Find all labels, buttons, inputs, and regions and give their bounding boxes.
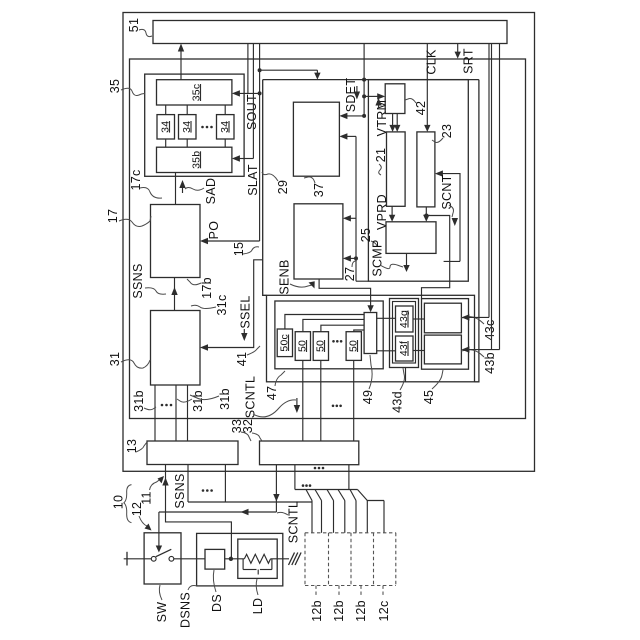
block 42 (385, 84, 405, 114)
arrow SCNT annotation (452, 218, 458, 226)
label 17b (187, 277, 214, 299)
register 35b (157, 147, 232, 172)
wire into 37 lower (339, 133, 356, 139)
wire box13 drop b (224, 465, 226, 503)
box 29 left edge (263, 80, 267, 296)
fan stub 6 (358, 490, 368, 501)
svg-text:17b: 17b (200, 277, 214, 299)
fan bus (295, 489, 358, 491)
wire SCNT feedback (426, 216, 449, 262)
arrow VTRM annotation (375, 98, 381, 108)
wire SCNT bottom link (444, 260, 460, 262)
svg-text:SENB: SENB (278, 259, 292, 294)
label 43c (461, 317, 497, 341)
wire SSEL (200, 260, 263, 351)
wire box13 drop a (187, 465, 189, 503)
label 37 (304, 177, 326, 197)
ellipsis 34 row (201, 126, 213, 129)
svg-text:VPRD: VPRD (375, 194, 389, 230)
wire SAD 35b to block 17 (175, 173, 177, 205)
wire SLAT vertical (252, 44, 254, 159)
label 31b second (177, 390, 205, 412)
fan drop left (294, 465, 296, 490)
wire 34a to 35b (165, 139, 167, 147)
cell 50 a (295, 332, 310, 361)
wire LD to ground (271, 558, 289, 560)
node diode junction (229, 557, 233, 561)
fan wire 5 (355, 501, 357, 533)
block 43c (424, 303, 461, 333)
ellipsis 31b (161, 404, 173, 407)
fan wire 6 (366, 501, 368, 533)
label 11 (140, 476, 164, 505)
label 31b first (132, 390, 156, 412)
terminal tick (126, 552, 128, 566)
block 37 (293, 102, 339, 176)
wire 42 to 21 left (389, 114, 395, 132)
wire 21 to 25 (389, 206, 395, 222)
wire SCMP down (403, 253, 409, 272)
box 47 (275, 301, 383, 369)
wire DS to node (225, 558, 245, 560)
cell 34 c (217, 115, 235, 139)
label SW (155, 585, 169, 622)
cell 50c (277, 329, 292, 357)
svg-text:SAD: SAD (204, 178, 218, 205)
svg-text:LD: LD (251, 598, 265, 615)
label 27 (343, 260, 357, 281)
wire VTRM to 42 (364, 93, 385, 99)
node on wire 15 upper (258, 68, 262, 72)
wire SDET vertical (363, 44, 365, 116)
fan stub 5 (350, 490, 356, 501)
block 21 (387, 132, 406, 206)
switch box SW (144, 533, 181, 584)
label 10 (112, 485, 132, 523)
box 41 (267, 295, 475, 382)
svg-text:SSEL: SSEL (239, 295, 253, 328)
label 41 (235, 346, 260, 366)
register 35c (157, 80, 232, 105)
box 43d inner (393, 302, 416, 364)
wire 50c to 49 (285, 315, 364, 330)
box 29 right edge (475, 80, 479, 382)
svg-text:PO: PO (207, 221, 221, 240)
box 13 (147, 441, 238, 465)
dashed pixel boxes 12b group (305, 533, 396, 586)
svg-text:SSNS: SSNS (173, 473, 187, 508)
label SENB (278, 259, 315, 294)
svg-text:29: 29 (276, 180, 290, 195)
wire to box 29 top (260, 70, 321, 79)
label 51 (127, 18, 152, 37)
box 32 (260, 441, 359, 465)
label 29 (262, 172, 290, 194)
ground (289, 553, 302, 566)
wire SCNT up branch (435, 170, 460, 261)
svg-text:31: 31 (108, 352, 122, 367)
fan drop right (348, 465, 350, 490)
capacitor branch (243, 559, 272, 575)
label SAD (185, 178, 218, 205)
label 32 (241, 419, 262, 441)
cell 43g (396, 306, 414, 332)
svg-text:SSNS: SSNS (131, 263, 145, 298)
wire 15 vertical (259, 44, 261, 242)
fan wire 2 (321, 501, 323, 533)
svg-text:SOUT: SOUT (245, 94, 259, 130)
svg-text:12: 12 (130, 502, 144, 517)
wire from bar to 43b (499, 44, 501, 350)
inner box 15 (130, 59, 526, 419)
arrow SSNS up (162, 478, 168, 486)
wire from bar to 43c (488, 44, 490, 318)
label 45 (422, 370, 443, 404)
svg-text:12b: 12b (354, 600, 368, 622)
node SDET lower (362, 114, 366, 118)
svg-text:21: 21 (374, 148, 388, 163)
label 43d (391, 368, 405, 413)
ellipsis 50 row (332, 340, 342, 343)
leader 12b first (315, 586, 317, 598)
wire into 35b (232, 155, 254, 161)
label SCMP (371, 239, 404, 276)
svg-text:31b: 31b (218, 388, 232, 410)
svg-text:SCMP: SCMP (371, 239, 385, 276)
wire 23 to 25 (423, 207, 429, 222)
label 33 (230, 419, 251, 441)
label 17c (129, 169, 162, 198)
label 13 (125, 439, 147, 454)
fan stub 2 (315, 490, 322, 501)
switch contact right (169, 556, 174, 561)
arrow SSEL annotation (241, 329, 247, 341)
label SCNT (440, 174, 454, 217)
svg-text:31b: 31b (191, 390, 205, 412)
label 35 (108, 79, 145, 96)
label DS (210, 570, 224, 612)
svg-text:17: 17 (106, 209, 120, 224)
wire terminal to switch (124, 558, 152, 560)
wire box32 down (273, 465, 279, 512)
svg-text:SW: SW (155, 602, 169, 623)
wire 50b down to 32 (320, 360, 322, 441)
svg-text:43c: 43c (483, 319, 497, 340)
block 17 (151, 205, 201, 278)
cell 34 b (179, 115, 197, 139)
wire into block 39 upper (343, 215, 356, 221)
svg-text:SRT: SRT (462, 48, 476, 74)
fan wire 3 (333, 501, 335, 533)
svg-text:31c: 31c (215, 294, 229, 315)
node 27 (354, 256, 358, 260)
wire into 35c (232, 90, 260, 96)
label 31c (191, 294, 229, 315)
label SCNTL bottom (277, 501, 301, 543)
laser diode box LD (238, 539, 277, 578)
outer box 11 (123, 13, 535, 472)
svg-text:45: 45 (422, 390, 436, 405)
wire 35c to 34a (165, 105, 167, 115)
svg-text:51: 51 (127, 18, 141, 33)
box 43d outer (390, 299, 419, 368)
block 25 comparator (386, 222, 436, 254)
box 45 (422, 299, 469, 370)
wire SOUT vertical (247, 44, 249, 94)
leader 12b second (338, 586, 340, 598)
wire 31b a (154, 385, 156, 441)
svg-text:SCNTL: SCNTL (287, 501, 301, 543)
node on wire 15 at 35c branch (258, 91, 262, 95)
fan wire 7 (383, 501, 385, 533)
wire 34c to 35b (224, 139, 226, 147)
wire 17 to 31 (171, 278, 177, 311)
switch blade (156, 549, 172, 556)
svg-text:12b: 12b (332, 600, 346, 622)
fan stub 3 (327, 490, 334, 501)
svg-text:27: 27 (343, 267, 357, 282)
label 23 (432, 124, 454, 143)
wire SCNTL horizontal (159, 509, 277, 515)
svg-text:43b: 43b (483, 352, 497, 374)
wire 31b c (187, 385, 189, 441)
wire 50b to 49 (321, 325, 364, 332)
label 15 (232, 242, 259, 257)
wire from bar to 43b second (491, 44, 493, 350)
svg-text:SCNTL: SCNTL (244, 376, 258, 418)
ellipsis under box32 (314, 467, 325, 470)
node SDET on box29 top (362, 78, 366, 82)
box 29 top edge (263, 79, 479, 81)
wire SRT (455, 44, 461, 59)
label 21 (374, 148, 388, 175)
wire 50a to 49 (303, 319, 364, 331)
block 49 driver (364, 313, 377, 354)
fan stub 1 (306, 490, 312, 501)
wire into 43c (461, 314, 489, 320)
svg-text:37: 37 (312, 183, 326, 198)
wire 27 vertical (355, 136, 357, 281)
leader 12b third (360, 586, 362, 598)
wire 49 to 43g (377, 317, 396, 319)
label 47 (265, 371, 285, 400)
svg-text:SLAT: SLAT (246, 164, 260, 196)
wire into 43b (461, 346, 499, 352)
wire 42 to 21 right (394, 114, 400, 132)
wire 50a down to 32 (302, 360, 304, 441)
label SCNTL left (244, 376, 297, 418)
detector box DSNS (197, 533, 283, 586)
switch contact left (151, 556, 156, 561)
fan link right (367, 500, 384, 502)
svg-text:31b: 31b (132, 390, 146, 412)
control box 20 (368, 80, 468, 282)
svg-text:47: 47 (265, 386, 279, 401)
svg-text:23: 23 (440, 124, 454, 139)
svg-text:32: 32 (241, 419, 255, 434)
arrow SDET annotation (354, 86, 360, 100)
label 42 (405, 99, 428, 116)
wire CLK (424, 44, 430, 132)
label 31 (108, 352, 150, 368)
svg-text:DS: DS (210, 594, 224, 612)
fan wire 4 (344, 501, 346, 533)
block 39 lower (294, 204, 343, 279)
ellipsis bus (202, 489, 213, 492)
wire 50d down to 32 (353, 360, 355, 441)
detector element DS (205, 549, 225, 569)
wire box13 to diode node (166, 465, 232, 559)
wire 35c to 34b (186, 105, 188, 115)
svg-text:10: 10 (112, 495, 126, 510)
label 25 (359, 228, 377, 247)
label DSNS (179, 586, 198, 628)
wire SSNS bus (188, 501, 312, 503)
wire 31b b (175, 385, 177, 441)
box 35 (145, 74, 244, 176)
svg-text:41: 41 (235, 352, 249, 367)
node 23 output (424, 214, 428, 218)
label 17 (106, 209, 151, 227)
label 31b third (190, 388, 232, 410)
cell 50 b (313, 332, 328, 361)
ellipsis fan (302, 484, 312, 487)
wire PO (200, 238, 260, 244)
wire switch to DSNS (174, 558, 205, 560)
cell 43f (396, 336, 414, 361)
svg-text:12b: 12b (310, 600, 324, 622)
label 12 (130, 502, 152, 531)
fan wire 1 (311, 501, 313, 533)
block 43b (424, 335, 461, 364)
block 31 (151, 311, 201, 386)
resistor zigzag (244, 554, 270, 563)
svg-text:DSNS: DSNS (179, 592, 193, 628)
wire 43g to 43c (413, 318, 424, 320)
bus bar 51 (153, 21, 507, 44)
wire 50d to 49 (354, 330, 364, 332)
label LD (251, 579, 265, 614)
svg-text:43d: 43d (391, 391, 405, 413)
fan stub 4 (338, 490, 345, 501)
label 49 (361, 355, 375, 404)
arrow SAD annotation (179, 180, 185, 193)
wire 35c up to bar 51 (178, 44, 184, 80)
svg-text:SCNT: SCNT (440, 174, 454, 209)
arrow SCNTL annotation (294, 398, 300, 413)
wire SENB (319, 279, 374, 312)
svg-text:CLK: CLK (425, 49, 439, 75)
wire 34b to 35b (186, 139, 188, 147)
wire 35c to 34c (224, 105, 226, 115)
svg-text:35: 35 (108, 79, 122, 94)
cell 50 d (346, 332, 361, 361)
svg-text:12c: 12c (377, 600, 391, 621)
wire 43f to 43b (413, 350, 424, 352)
wire SCNTL to switch (156, 512, 162, 553)
label SSNS left (131, 263, 166, 298)
wire into block 39 lower (343, 255, 356, 261)
label 43b (461, 350, 497, 374)
wire into 37 upper (339, 113, 364, 119)
node SDET at VTRM branch (362, 94, 366, 98)
wire SCNT down branch (422, 261, 450, 298)
wire 49 to 43f (377, 350, 396, 352)
wire stub 27 to control box (356, 280, 368, 282)
ellipsis drop wires (332, 405, 342, 408)
cell 34 a (157, 115, 175, 139)
wire 43d down (405, 368, 407, 382)
leader 12c (382, 586, 384, 598)
block 23 (417, 132, 435, 207)
svg-text:49: 49 (361, 390, 375, 405)
